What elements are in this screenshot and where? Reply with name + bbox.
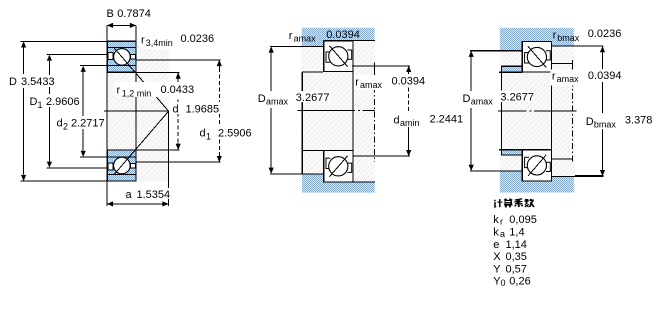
fig3 sleeve top strip <box>501 66 523 71</box>
svg-text:amax: amax <box>360 80 383 90</box>
svg-text:k: k <box>493 214 499 226</box>
fig2 bearing top section <box>324 41 353 72</box>
fig1 axis line <box>104 110 169 112</box>
svg-text:D: D <box>9 76 17 88</box>
dimension Damax line fig2 <box>269 46 274 173</box>
svg-text:d: d <box>173 104 179 116</box>
svg-text:amax: amax <box>557 74 580 84</box>
fig3 housing shoulder face line left <box>470 50 523 52</box>
fig3 ra abutment line bottom <box>552 158 572 160</box>
fig3 sleeve top line <box>501 65 523 67</box>
fig1 right face line <box>135 25 137 181</box>
svg-text:1,4: 1,4 <box>509 226 524 238</box>
svg-text:amin: amin <box>400 118 420 128</box>
fig3 shaft recess line right <box>551 175 603 177</box>
svg-text:0.0236: 0.0236 <box>588 28 622 40</box>
svg-text:0.0433: 0.0433 <box>161 84 195 96</box>
svg-text:0,095: 0,095 <box>509 214 537 226</box>
fig1 left face line <box>106 25 108 206</box>
svg-text:r: r <box>500 217 503 227</box>
svg-text:2: 2 <box>63 122 68 132</box>
fig2 shaft top surface line <box>302 71 323 73</box>
svg-text:1,2 min: 1,2 min <box>122 89 152 99</box>
svg-text:0.0394: 0.0394 <box>326 29 360 41</box>
dimension d line <box>136 73 181 150</box>
svg-text:r: r <box>552 71 556 83</box>
fig3 bearing bottom section <box>522 150 551 181</box>
fig2 housing shoulder (top blue) <box>302 28 375 47</box>
svg-text:e: e <box>493 239 499 251</box>
fig3 shaft shoulder line left <box>470 170 522 172</box>
fig2 housing bore line <box>324 39 375 41</box>
svg-text:amax: amax <box>471 97 494 107</box>
svg-text:2.2717: 2.2717 <box>71 118 105 130</box>
svg-text:0,57: 0,57 <box>506 263 527 275</box>
svg-text:2.9606: 2.9606 <box>46 96 80 108</box>
svg-text:X: X <box>493 251 501 263</box>
fig2 shaft shoulder step <box>323 174 325 182</box>
svg-text:2.2441: 2.2441 <box>430 114 464 126</box>
svg-text:0.0394: 0.0394 <box>588 70 622 82</box>
svg-text:1.5354: 1.5354 <box>137 189 171 201</box>
svg-text:r: r <box>553 30 557 42</box>
fig3 outer ring right face line <box>551 72 553 150</box>
svg-text:d: d <box>57 118 63 130</box>
fig2 ra fillet leader <box>373 63 375 75</box>
fig3 sleeve bottom line <box>501 154 523 156</box>
svg-text:3.2677: 3.2677 <box>296 92 330 104</box>
svg-text:k: k <box>493 226 499 238</box>
svg-text:r: r <box>355 77 359 89</box>
svg-text:a: a <box>500 229 505 239</box>
fig1 bearing bottom section <box>107 150 136 181</box>
svg-text:a: a <box>126 189 133 201</box>
fig3 sleeve end face <box>500 66 502 155</box>
fig2 housing shoulder face line <box>270 45 323 47</box>
svg-text:3,4min: 3,4min <box>146 38 173 48</box>
figure 3 canvas <box>500 28 575 193</box>
svg-text:0,35: 0,35 <box>506 251 527 263</box>
fig1 contact angle line top <box>114 47 169 111</box>
dimension Dbmax line fig3 <box>575 46 605 176</box>
fig3 inner ring face ext top <box>499 71 522 73</box>
table heading hanzi xi <box>515 199 523 207</box>
fig1 apex extension line <box>168 111 170 206</box>
table heading hanzi ji <box>494 199 502 207</box>
svg-text:0,26: 0,26 <box>509 275 530 287</box>
dimension D line <box>21 41 107 181</box>
fig3 sleeve bottom strip <box>501 150 523 155</box>
fig2 axis line <box>298 109 356 111</box>
svg-text:amax: amax <box>294 34 317 44</box>
fig3 shaft bottom blue <box>500 171 574 193</box>
dimension d1 line <box>136 60 222 162</box>
label boxes <box>8 34 654 199</box>
fig3 axis line <box>498 110 527 112</box>
svg-text:d: d <box>200 128 206 140</box>
fig3 housing recess line right <box>551 45 603 47</box>
fig3 ra fillet leader <box>572 60 574 68</box>
dimension damin line fig2 <box>352 66 411 156</box>
dimension Damax line fig3 <box>469 51 474 171</box>
svg-text:3.378: 3.378 <box>625 115 653 127</box>
svg-text:D: D <box>30 96 38 108</box>
svg-text:D: D <box>258 93 266 105</box>
fig3 housing shoulder (top blue) <box>500 28 574 51</box>
svg-text:D: D <box>463 93 471 105</box>
svg-text:bmax: bmax <box>594 120 617 130</box>
svg-text:1: 1 <box>206 132 211 142</box>
svg-text:bmax: bmax <box>557 33 580 43</box>
svg-text:1.9685: 1.9685 <box>186 104 220 116</box>
svg-text:1: 1 <box>38 100 43 110</box>
dimension a line <box>107 201 169 206</box>
fig2 outer ring right face line <box>352 71 354 150</box>
svg-text:3.5433: 3.5433 <box>21 76 55 88</box>
svg-text:D: D <box>586 116 594 128</box>
svg-text:0.0236: 0.0236 <box>181 33 215 45</box>
svg-text:r: r <box>117 85 121 97</box>
fig2 bearing bottom section <box>324 151 353 183</box>
fig1 contact angle line bottom <box>114 111 169 175</box>
figure 1 canvas <box>107 41 169 182</box>
table heading hanzi <box>494 199 534 208</box>
svg-text:2.5906: 2.5906 <box>218 128 252 140</box>
fig2 shaft shoulder face line <box>270 173 323 175</box>
svg-text:amax: amax <box>266 97 289 107</box>
svg-text:0.0394: 0.0394 <box>392 76 426 88</box>
fig2 shaft surface line <box>353 181 375 183</box>
svg-text:1,14: 1,14 <box>506 239 527 251</box>
svg-text:r: r <box>289 30 293 42</box>
fig1 bearing top section <box>107 41 136 72</box>
svg-text:r: r <box>141 35 145 47</box>
svg-text:Y: Y <box>493 263 501 275</box>
svg-text:B: B <box>107 8 114 20</box>
fig2 shaft shoulder (bottom blue) <box>302 174 375 193</box>
fig3 bearing top section <box>522 42 551 73</box>
fig3 inner ring face ext bottom <box>499 149 522 151</box>
fig2 housing shoulder step <box>323 40 325 46</box>
svg-text:0.7874: 0.7874 <box>117 8 151 20</box>
fig2 shaft lower surface line <box>302 149 324 151</box>
figure 2 canvas <box>302 28 375 193</box>
svg-text:3.2677: 3.2677 <box>500 92 534 104</box>
dimension D1 line <box>46 55 107 168</box>
table heading hanzi shu <box>525 199 535 207</box>
fig3 ra abutment line top <box>551 63 572 65</box>
table heading hanzi suan <box>504 199 513 208</box>
fig2 shaft left end face <box>301 72 303 174</box>
dimension B line <box>107 23 136 28</box>
dimension d2 line <box>80 66 107 157</box>
svg-text:d: d <box>394 115 400 127</box>
svg-text:0: 0 <box>501 278 506 288</box>
